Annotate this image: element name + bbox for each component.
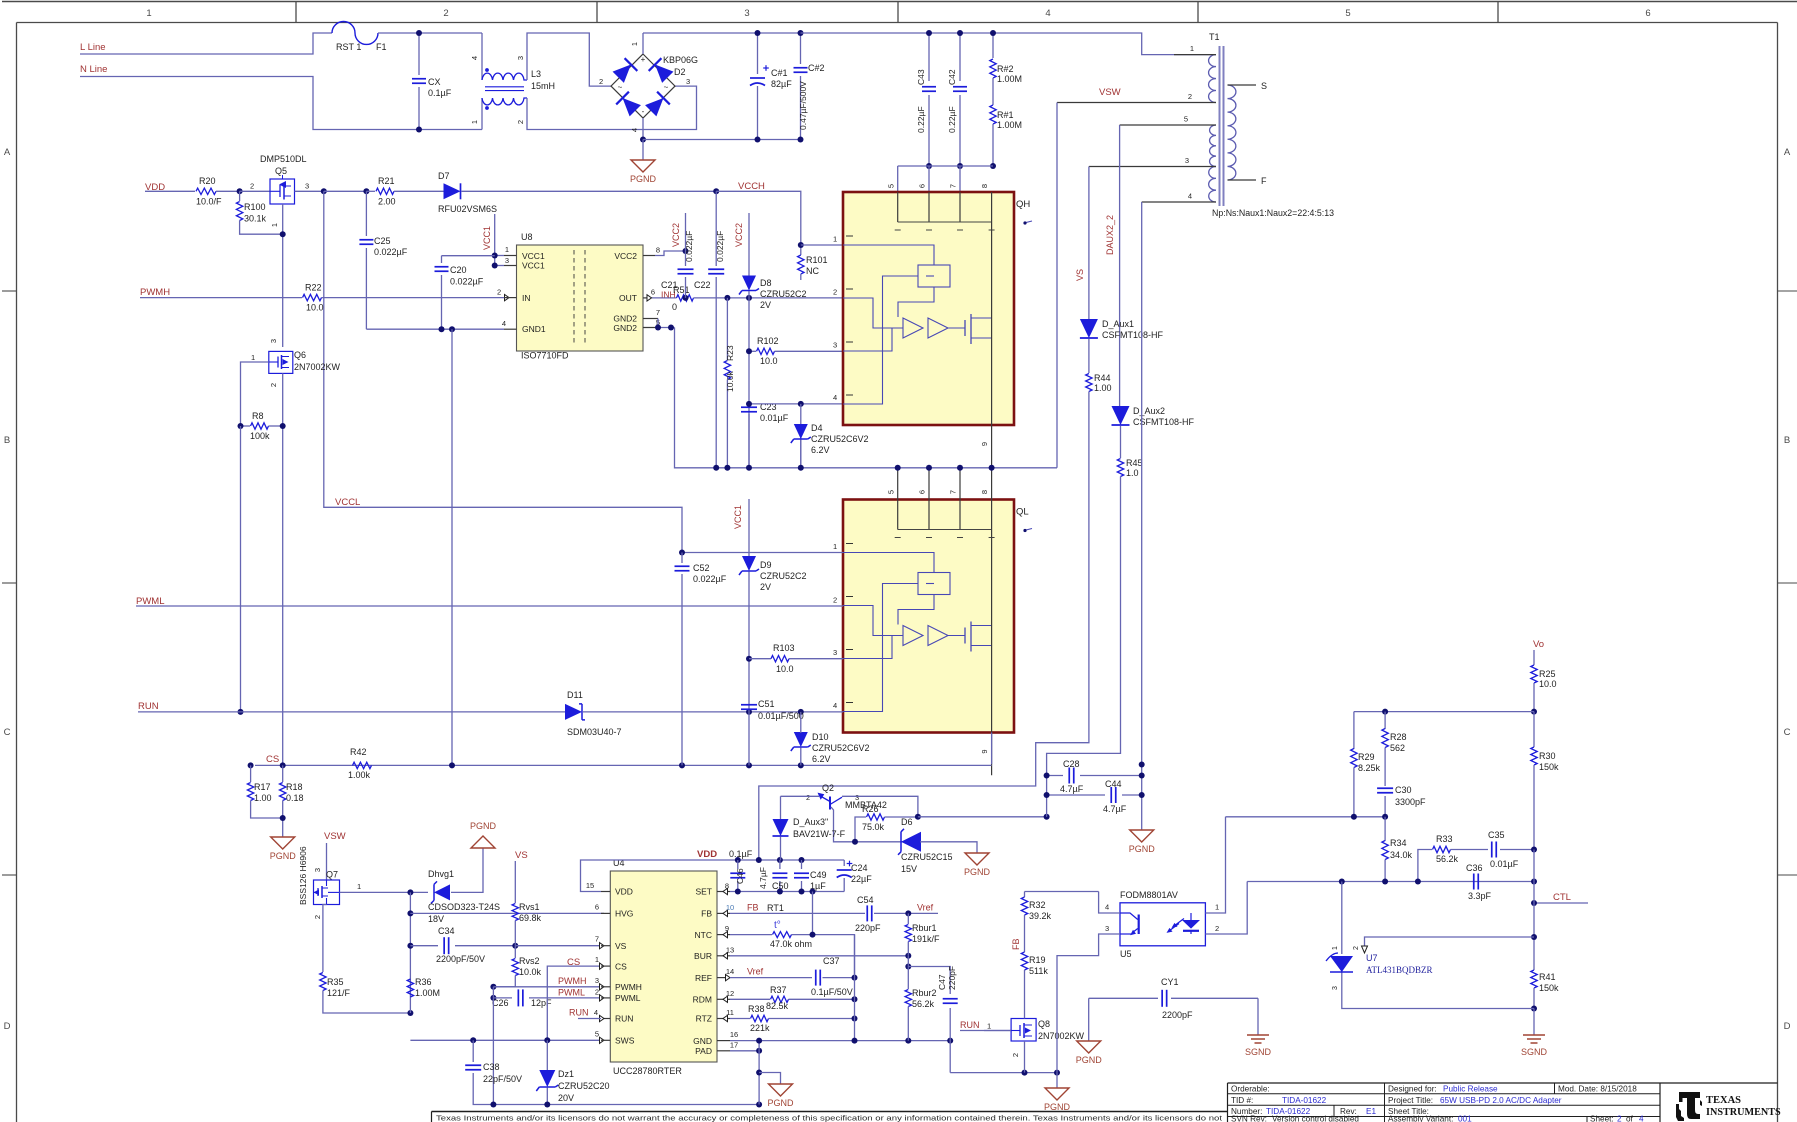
ground PGND C44 — [1130, 830, 1154, 842]
svg-text:TID #:: TID #: — [1231, 1096, 1253, 1105]
resistor Rvs2 10.0k — [514, 946, 516, 958]
svg-text:1: 1 — [270, 223, 279, 227]
capacitor C54 220pF — [866, 905, 868, 921]
resistor R#2 1.00M — [992, 33, 994, 58]
capacitor C22 0.022uF — [715, 191, 717, 266]
junction CS C52 — [679, 762, 685, 768]
wire top rail to C#1 C#2 — [643, 32, 801, 34]
U4 pin stubs left — [601, 891, 610, 893]
svg-text:R33: R33 — [1436, 834, 1453, 844]
capacitor C20 0.022uF — [442, 255, 495, 257]
svg-text:R8: R8 — [252, 411, 264, 421]
svg-text:D: D — [1784, 1021, 1791, 1032]
svg-text:R32: R32 — [1029, 900, 1046, 910]
resistor R100 30.1k — [239, 191, 241, 201]
wire top rail to transformer — [801, 33, 1217, 55]
wire HVG row — [410, 912, 604, 914]
svg-text:PWMH: PWMH — [140, 287, 170, 298]
svg-text:GND2: GND2 — [613, 314, 637, 324]
svg-text:KBP06G: KBP06G — [663, 55, 698, 65]
wire Rvs1 to dot — [514, 921, 516, 946]
svg-text:R101: R101 — [806, 255, 828, 265]
svg-text:E1: E1 — [1366, 1107, 1376, 1116]
svg-text:2: 2 — [1215, 924, 1219, 933]
wire U8 OUT row — [648, 297, 677, 299]
junction BUR Rbur — [905, 953, 911, 959]
svg-text:Vo: Vo — [1533, 639, 1544, 650]
resistor R30 150k — [1531, 747, 1537, 765]
resistor R103 10.0 — [749, 658, 771, 660]
resistor R17 1.00 — [250, 765, 252, 782]
resistor R18 0.18 — [282, 765, 284, 782]
wire VSW vertical — [1056, 103, 1058, 468]
junction C#1 bottom — [755, 137, 761, 143]
svg-text:3: 3 — [305, 182, 309, 191]
capacitor C21 0.022uF — [685, 213, 687, 251]
ground PGND D6 — [965, 853, 989, 865]
gate driver block QH — [843, 192, 1014, 425]
wire T1 pin4 vertical to PGND — [1141, 202, 1143, 830]
svg-text:Q5: Q5 — [275, 166, 287, 176]
wire R8 gate riser to RUN — [240, 426, 242, 712]
svg-text:SWS: SWS — [615, 1036, 635, 1046]
junction R29 bottom — [1351, 814, 1357, 820]
wire VS from T1 pin3 — [1088, 167, 1090, 321]
junction rail U7 — [1339, 879, 1345, 885]
junction CS GND1 riser — [449, 762, 455, 768]
svg-text:Rvs2: Rvs2 — [519, 956, 540, 966]
svg-text:6: 6 — [918, 490, 927, 494]
svg-text:R102: R102 — [757, 336, 779, 346]
svg-text:Q8: Q8 — [1038, 1019, 1050, 1029]
wire RUN row to D11 — [138, 711, 567, 713]
svg-text:2: 2 — [269, 383, 278, 387]
junction R41 bottom — [1531, 1006, 1537, 1012]
wire choke pin3 to bridge pin2 — [527, 33, 611, 86]
svg-text:17: 17 — [730, 1041, 738, 1050]
capacitor C36 3.3pF — [1473, 874, 1475, 890]
wire REF row — [730, 977, 812, 979]
svg-text:0.18: 0.18 — [286, 793, 304, 803]
wire rail to PGND — [1056, 1073, 1058, 1088]
svg-text:D_Aux1: D_Aux1 — [1102, 319, 1134, 329]
wire CY1 left to PGND — [1088, 998, 1090, 1041]
svg-text:2: 2 — [833, 596, 837, 605]
capacitor C43 — [928, 33, 930, 81]
disclaimer box — [432, 1111, 1228, 1113]
svg-text:22pF/50V: 22pF/50V — [483, 1074, 522, 1084]
svg-text:10.0k: 10.0k — [519, 967, 542, 977]
svg-text:6.2V: 6.2V — [811, 445, 830, 455]
resistor R#1 1.00M — [990, 105, 996, 124]
svg-text:F1: F1 — [376, 42, 387, 52]
wire D_Aux2 to R45 — [1120, 426, 1122, 458]
wire HVG riser — [409, 892, 411, 1013]
svg-text:CSFMT108-HF: CSFMT108-HF — [1102, 330, 1164, 340]
T1 pin5 lead — [1120, 124, 1216, 126]
svg-text:PAD: PAD — [695, 1046, 712, 1056]
junction CS VCC1 — [746, 762, 752, 768]
svg-text:191k/F: 191k/F — [912, 934, 940, 944]
svg-text:PGND: PGND — [630, 174, 657, 184]
junction pin4 vertical a — [1139, 762, 1145, 768]
title block — [1228, 1082, 1778, 1084]
svg-text:1: 1 — [833, 235, 837, 244]
resistor R19 511k — [1021, 952, 1027, 970]
svg-text:R18: R18 — [286, 782, 303, 792]
svg-text:10.0: 10.0 — [306, 303, 324, 313]
svg-text:CZRU52C2: CZRU52C2 — [760, 289, 807, 299]
wire Q7 source down R35 — [323, 905, 327, 973]
ground SGND right — [1523, 1034, 1545, 1036]
wire snubber bottom rail — [898, 165, 993, 167]
svg-text:PGND: PGND — [1129, 844, 1156, 854]
junction C21 top — [683, 248, 689, 254]
svg-text:F: F — [1261, 176, 1267, 186]
svg-text:Mod. Date: 8/15/2018: Mod. Date: 8/15/2018 — [1558, 1085, 1637, 1094]
wire CS U4 row — [547, 966, 600, 1040]
svg-text:U7: U7 — [1366, 953, 1378, 963]
wire QL source to CS rail — [991, 733, 993, 765]
svg-text:7: 7 — [949, 490, 958, 494]
wire VCC1 QL vertical — [748, 499, 750, 556]
svg-text:OUT: OUT — [619, 293, 637, 303]
svg-text:1: 1 — [1190, 44, 1194, 53]
junction bridge bottom — [640, 137, 646, 143]
svg-text:0.022µF: 0.022µF — [450, 277, 484, 287]
wire C26 riser down — [492, 998, 494, 1105]
svg-text:1: 1 — [833, 542, 837, 551]
wire D11 to QL pin4 row — [583, 711, 843, 713]
junction C#2 bottom — [798, 137, 804, 143]
junction R20 out — [237, 188, 243, 194]
zener diode D4 CZRU52C6V2 — [794, 424, 808, 439]
svg-text:3: 3 — [686, 77, 690, 86]
svg-text:~: ~ — [618, 83, 623, 92]
svg-text:C34: C34 — [438, 926, 455, 936]
wire FB rail y881 — [1247, 881, 1534, 883]
capacitor C35 0.01uF — [1491, 842, 1493, 858]
svg-text:2: 2 — [1188, 92, 1192, 101]
svg-text:0.022µF: 0.022µF — [374, 247, 408, 257]
junction QH pin4 VCCH riser — [798, 401, 804, 407]
wire D10 vertical — [800, 712, 802, 733]
junction OUT D8 — [746, 295, 752, 301]
ground PGND Dhvg1 flipped — [471, 836, 495, 848]
svg-text:R21: R21 — [378, 176, 395, 186]
wire choke pin2 to bridge pin3 — [527, 86, 697, 129]
svg-text:RDM: RDM — [693, 995, 712, 1005]
wire QH top stubs — [897, 166, 899, 222]
junction rail Dz1 — [544, 1102, 550, 1108]
svg-text:2V: 2V — [760, 582, 771, 592]
junction OUT C21 — [683, 295, 689, 301]
junction GND2 pin5 — [668, 325, 674, 331]
svg-text:C24: C24 — [851, 863, 868, 873]
junction rail QL stub 6 — [926, 465, 932, 471]
capacitor C28 4.7uF — [1047, 775, 1063, 777]
shunt regulator U7 ATL431BQDBZR — [1341, 882, 1343, 955]
svg-text:GND1: GND1 — [522, 324, 546, 334]
svg-text:Sheet:: Sheet: — [1590, 1115, 1614, 1122]
svg-text:9: 9 — [980, 749, 989, 753]
svg-text:PWMH: PWMH — [615, 982, 642, 992]
junction Q5 out — [321, 188, 327, 194]
svg-text:R20: R20 — [199, 176, 216, 186]
op-amp U8 ISO7710FD — [517, 245, 644, 351]
zener diode D8 CZRU52C2 — [748, 213, 750, 276]
svg-text:R38: R38 — [748, 1004, 765, 1014]
svg-text:CZRU52C20: CZRU52C20 — [558, 1081, 610, 1091]
capacitor C38 22pF/50V — [472, 1040, 474, 1062]
wire U7 ref — [1365, 937, 1535, 951]
resistor R33 56.2k — [1433, 846, 1451, 852]
svg-text:D2: D2 — [674, 67, 686, 77]
wire VCCH to R101 — [716, 191, 801, 245]
arrows U4 right pins — [723, 888, 728, 894]
junction VCCH — [713, 188, 719, 194]
wire Q5 source down — [282, 204, 284, 347]
svg-text:1.0: 1.0 — [1126, 468, 1139, 478]
junction Vo row — [1531, 709, 1537, 715]
svg-text:4: 4 — [1105, 903, 1109, 912]
ground PGND PAD — [769, 1084, 793, 1096]
svg-text:2: 2 — [250, 182, 254, 191]
svg-text:DAUX2_2: DAUX2_2 — [1105, 215, 1115, 255]
svg-text:RFU02VSM6S: RFU02VSM6S — [438, 204, 497, 214]
svg-text:S: S — [1261, 81, 1267, 91]
svg-text:R34: R34 — [1390, 838, 1407, 848]
wire U8 pin8 jog — [655, 251, 686, 256]
junction Vref Rbur1 — [905, 910, 911, 916]
svg-text:GND2: GND2 — [613, 323, 637, 333]
svg-text:CS: CS — [615, 961, 627, 971]
junction D10 top — [798, 709, 804, 715]
svg-text:RUN: RUN — [615, 1014, 633, 1024]
svg-text:3300pF: 3300pF — [1395, 797, 1426, 807]
svg-text:A: A — [4, 147, 11, 158]
wire VSW to Q7 — [326, 843, 328, 880]
junction PGND PAD stub — [756, 1070, 762, 1076]
svg-text:TEXAS: TEXAS — [1706, 1095, 1741, 1106]
junction rail R33 riser — [1415, 879, 1421, 885]
svg-text:FODM8801AV: FODM8801AV — [1120, 890, 1178, 900]
diode D7 RFU02VSM6S — [444, 183, 461, 199]
junction rail D8 — [746, 465, 752, 471]
capacitor C42 — [959, 33, 961, 81]
wire riser NTC-GND — [854, 935, 856, 1041]
svg-text:4: 4 — [1045, 8, 1050, 19]
svg-text:4: 4 — [594, 1008, 598, 1017]
wire VDD rail — [738, 859, 844, 861]
T1 pin3 lead — [1089, 166, 1216, 168]
junction SET FB riser — [810, 889, 816, 895]
resistor R21 2.00 — [366, 190, 375, 192]
T1 secondary S lead — [1228, 84, 1257, 86]
wire to Q5 — [240, 190, 270, 192]
capacitor C46 0.1uF — [737, 860, 739, 869]
svg-text:10.0/F: 10.0/F — [196, 197, 222, 207]
svg-text:82µF: 82µF — [771, 79, 792, 89]
zener diode D10 CZRU52C6V2 — [794, 732, 808, 747]
resistor R22 10.0 — [303, 294, 322, 300]
junction OUT R23 — [724, 295, 730, 301]
svg-text:+: + — [641, 55, 646, 64]
wire GND row — [730, 1040, 950, 1042]
wire VS stub — [514, 861, 516, 903]
svg-text:8: 8 — [656, 246, 660, 255]
svg-text:R26: R26 — [862, 804, 879, 814]
ground PGND R18 — [271, 837, 295, 849]
svg-text:D10: D10 — [812, 732, 829, 742]
svg-text:18V: 18V — [428, 914, 444, 924]
svg-text:6: 6 — [595, 903, 599, 912]
junction GND2 pin7 — [655, 325, 661, 331]
svg-text:RUN: RUN — [960, 1020, 980, 1030]
svg-text:C54: C54 — [857, 895, 874, 905]
wire DAux3 to VDD rail — [780, 837, 782, 861]
svg-text:IN: IN — [522, 293, 531, 303]
wire C47 top row — [908, 967, 950, 995]
svg-text:47.0k ohm: 47.0k ohm — [770, 939, 812, 949]
resistor R32 39.2k — [1021, 897, 1027, 915]
capacitor C26 12pF — [493, 997, 512, 999]
svg-text:Texas Instruments and/or its l: Texas Instruments and/or its licensors d… — [436, 1114, 1222, 1122]
wire FODM pin3 — [1057, 934, 1120, 1073]
svg-text:C26: C26 — [492, 998, 509, 1008]
wire BUR row — [730, 955, 908, 957]
svg-text:1: 1 — [470, 120, 479, 124]
svg-text:R30: R30 — [1539, 751, 1556, 761]
svg-text:VCC1: VCC1 — [733, 505, 743, 529]
svg-text:2.00: 2.00 — [378, 197, 396, 207]
svg-text:100k: 100k — [250, 431, 270, 441]
T1 pin2 lead VSW — [1057, 102, 1216, 104]
wire Vo down — [1533, 650, 1535, 665]
svg-text:7: 7 — [656, 308, 660, 317]
svg-text:VCC1: VCC1 — [522, 251, 545, 261]
svg-text:VCC2: VCC2 — [734, 223, 744, 247]
wire Dz1 to bottom rail — [546, 1088, 548, 1105]
svg-text:69.8k: 69.8k — [519, 913, 542, 923]
capacitor C24 22uF polarized — [843, 860, 845, 866]
svg-text:3: 3 — [269, 339, 278, 343]
svg-text:VCC2: VCC2 — [614, 251, 637, 261]
svg-text:BUR: BUR — [694, 951, 712, 961]
junction C51 pin4 — [746, 709, 752, 715]
svg-text:CS: CS — [266, 754, 279, 765]
svg-text:BSS126 H6906: BSS126 H6906 — [298, 846, 308, 905]
svg-text:65W USB-PD 2.0 AC/DC Adapter: 65W USB-PD 2.0 AC/DC Adapter — [1440, 1096, 1562, 1105]
junction C42 top — [957, 30, 963, 36]
wire RUN_1 under label — [960, 1030, 1011, 1032]
wire CTL stub — [1534, 902, 1588, 904]
resistor R20 10.0/F — [196, 188, 216, 194]
svg-text:1.00M: 1.00M — [997, 74, 1022, 84]
junction Q7 gate node — [407, 889, 413, 895]
svg-text:D6: D6 — [901, 817, 913, 827]
wire SWS row — [410, 1039, 600, 1041]
svg-text:22µF: 22µF — [851, 874, 872, 884]
QH top pin stubs — [897, 192, 899, 222]
wire Q8 source rail — [950, 1072, 1057, 1074]
diode Dhvg1 CDSOD323-T24S — [434, 884, 450, 900]
transistor Q8 2N7002KW — [1011, 1019, 1036, 1042]
svg-text:1.00k: 1.00k — [348, 770, 371, 780]
svg-text:C28: C28 — [1063, 759, 1080, 769]
svg-text:3: 3 — [833, 648, 837, 657]
capacitor C#1 82uF — [757, 33, 759, 74]
svg-text:3: 3 — [833, 341, 837, 350]
svg-text:R103: R103 — [773, 643, 795, 653]
svg-text:6: 6 — [651, 288, 655, 297]
svg-text:4: 4 — [630, 128, 639, 132]
junction SET C46 — [735, 889, 741, 895]
junction rail R34 — [1382, 879, 1388, 885]
svg-text:SGND: SGND — [1245, 1047, 1272, 1057]
U8 pin stubs — [504, 255, 517, 257]
svg-text:CZRU52C15: CZRU52C15 — [901, 852, 953, 862]
svg-text:001: 001 — [1458, 1115, 1472, 1122]
svg-text:ISO7710FD: ISO7710FD — [521, 351, 569, 361]
svg-text:0.01µF: 0.01µF — [760, 413, 789, 423]
svg-text:PGND: PGND — [767, 1098, 794, 1108]
wire VDD in — [145, 190, 195, 192]
svg-text:C: C — [1784, 727, 1791, 738]
svg-text:1: 1 — [1332, 946, 1339, 950]
svg-text:NC: NC — [806, 266, 819, 276]
svg-text:2V: 2V — [760, 300, 771, 310]
resistor R102 10.0 — [749, 350, 756, 352]
svg-text:TIDA-01622: TIDA-01622 — [1282, 1096, 1327, 1105]
wire PAD PGND stub — [759, 1073, 780, 1085]
svg-text:FB: FB — [701, 909, 712, 919]
capacitor C51 0.01uF/500 — [741, 704, 757, 706]
QL top pin stubs — [897, 500, 899, 530]
wire R45 down to elbow — [1047, 477, 1121, 776]
wire U7 bottom row — [1342, 971, 1534, 1009]
svg-text:0.1µF: 0.1µF — [428, 88, 452, 98]
svg-text:C46: C46 — [735, 868, 745, 884]
svg-text:R37: R37 — [770, 985, 787, 995]
svg-text:R44: R44 — [1094, 373, 1111, 383]
junction RDM riser — [852, 996, 858, 1002]
svg-text:1.00M: 1.00M — [415, 988, 440, 998]
svg-text:34.0k: 34.0k — [1390, 850, 1413, 860]
svg-text:C52: C52 — [693, 563, 710, 573]
wire Q7 pin1 row — [340, 891, 429, 893]
junction R28 top — [1382, 709, 1388, 715]
svg-text:U5: U5 — [1120, 949, 1132, 959]
resistor Rvs1 69.8k — [512, 904, 518, 921]
resistor R25 10.0 — [1531, 665, 1537, 683]
svg-text:Q7: Q7 — [326, 870, 338, 880]
wire QL top stubs to rail — [897, 468, 899, 500]
svg-text:5: 5 — [595, 1030, 599, 1039]
junction CS R18 — [280, 762, 286, 768]
junction rail FODM riser — [1054, 1070, 1060, 1076]
gate driver block QL — [843, 500, 1014, 733]
junction GND Rbur2 — [905, 1038, 911, 1044]
wire SET row — [730, 891, 844, 893]
junction pin4 vertical C28 — [1139, 773, 1145, 779]
svg-text:5: 5 — [1184, 115, 1188, 124]
wire RUN U4 stub — [600, 1015, 605, 1021]
svg-text:C25: C25 — [374, 236, 391, 246]
svg-text:D4: D4 — [811, 423, 823, 433]
svg-text:Vref: Vref — [747, 967, 764, 977]
wire FODM pin1 — [1205, 817, 1225, 913]
